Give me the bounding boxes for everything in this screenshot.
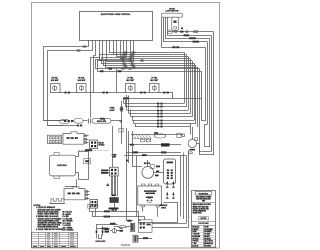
svg-text:CIRCUIT ONLY. IT IS POSSIBLE: CIRCUIT ONLY. IT IS POSSIBLE	[38, 218, 63, 220]
notes text	[34, 205, 64, 231]
svg-text:R RED: R RED	[192, 231, 196, 233]
svg-text:NOTICE: NOTICE	[201, 218, 207, 220]
broil row wires	[44, 119, 83, 126]
oven lamp E3	[126, 77, 136, 93]
bottom rows	[89, 210, 144, 229]
TML 50 junction	[109, 203, 119, 213]
terminal block TB1	[164, 159, 176, 184]
wire bundle to terminal	[106, 176, 118, 196]
svg-text:Y = YELLOW: Y = YELLOW	[63, 218, 73, 220]
dashed link	[78, 149, 109, 151]
svg-text:GN GREEN: GN GREEN	[204, 231, 211, 233]
svg-text:BROIL ELE: BROIL ELE	[97, 121, 107, 123]
svg-text:UNIT: UNIT	[202, 200, 205, 202]
svg-text:W WHITE: W WHITE	[192, 229, 198, 231]
svg-text:BAKE ELE: BAKE ELE	[57, 164, 67, 167]
svg-text:NO CONN: NO CONN	[204, 245, 210, 247]
latch switch S1 chain	[168, 27, 214, 33]
svg-text:DOOR LOCK: DOOR LOCK	[96, 241, 107, 243]
mid rows 150-155	[124, 151, 186, 156]
svg-text:GN = GREEN: GN = GREEN	[63, 227, 73, 229]
svg-text:R = RED: R = RED	[63, 216, 70, 218]
fan motor M2	[142, 160, 164, 178]
svg-text:UNITS: UNITS	[161, 207, 166, 209]
power distribution box	[139, 220, 189, 233]
warmer wire row	[128, 143, 181, 146]
bundle rows to right bus	[100, 43, 200, 72]
terminal connector TML1	[110, 195, 119, 203]
door switch wiring	[197, 125, 214, 155]
wire code list	[63, 211, 74, 232]
svg-text:BLK WHT: BLK WHT	[150, 80, 159, 82]
relay K3	[90, 200, 98, 209]
latch relay K1	[90, 140, 106, 149]
left drop wires to fan	[126, 128, 142, 222]
dual pin header	[88, 204, 97, 217]
hot surface relay K2	[101, 126, 118, 176]
svg-text:DISCONNECT POWER: DISCONNECT POWER	[196, 197, 212, 199]
svg-text:V = VIOLET: V = VIOLET	[63, 225, 71, 227]
svg-text:WH WHT: WH WHT	[204, 236, 210, 238]
svg-text:WITH COLOR CODE DESIG-: WITH COLOR CODE DESIG-	[38, 211, 60, 213]
latch plug J1	[48, 135, 62, 143]
svg-text:BLK WHT: BLK WHT	[51, 80, 60, 82]
door lock lamp	[105, 228, 124, 234]
surface unit box	[138, 203, 178, 223]
bottom plug J3	[49, 199, 65, 204]
electronic oven control EOC	[80, 12, 153, 41]
oven lamp E2	[77, 78, 87, 93]
svg-text:LATCH MOTOR: LATCH MOTOR	[165, 9, 179, 12]
harness rows to components	[123, 95, 206, 139]
svg-text:P PINK: P PINK	[204, 227, 208, 229]
broil element	[74, 69, 122, 124]
surface units arrows	[160, 181, 175, 210]
svg-text:BG BEIGE: BG BEIGE	[204, 238, 211, 240]
oven vent label	[112, 155, 117, 159]
bake element	[50, 153, 76, 179]
svg-text:BL BLUE: BL BLUE	[192, 245, 198, 247]
right wire bus verticals	[122, 32, 214, 155]
lamp row connectors	[65, 92, 169, 94]
oven lamp E4	[150, 77, 160, 93]
svg-text:BR = BROWN: BR = BROWN	[63, 221, 74, 223]
wire L1 run	[44, 43, 89, 120]
svg-text:BR BROWN: BR BROWN	[192, 236, 200, 238]
EOC pin header P1	[89, 41, 134, 44]
warmer limit switch	[177, 133, 185, 137]
wire N run	[48, 43, 93, 125]
latch wiring rows	[162, 17, 212, 48]
part number	[121, 244, 131, 247]
svg-text:BLK WHT: BLK WHT	[78, 80, 87, 82]
oven door switch feed	[100, 118, 123, 144]
warmer element assembly	[131, 132, 183, 142]
svg-text:BEFORE SERVICING: BEFORE SERVICING	[196, 199, 211, 201]
power supply cord	[114, 226, 130, 229]
svg-text:VICING PROD: VICING PROD	[193, 213, 202, 215]
border frame	[32, 3, 220, 249]
door latch motor M1	[162, 8, 183, 30]
latch socket	[63, 132, 89, 144]
svg-text:COLOR CODE: COLOR CODE	[198, 223, 208, 225]
oven light feed	[109, 101, 123, 123]
svg-text:BLK WHT: BLK WHT	[126, 80, 135, 82]
svg-text:W = WHITE: W = WHITE	[63, 214, 71, 216]
svg-text:7424521: 7424521	[121, 244, 131, 247]
svg-text:ELECTRONIC OVEN CONTROL: ELECTRONIC OVEN CONTROL	[101, 14, 131, 16]
door lock solenoid	[96, 226, 107, 243]
door switch S2	[188, 138, 198, 154]
oven lamp row wire	[60, 92, 173, 99]
svg-text:Y YELLOW: Y YELLOW	[192, 234, 200, 236]
svg-text:LBL LT BLUE: LBL LT BLUE	[204, 241, 213, 243]
sensor feed wires	[137, 155, 158, 217]
svg-text:TML 1: TML 1	[112, 195, 117, 197]
svg-text:V VIOLET: V VIOLET	[192, 241, 198, 243]
svg-text:NOTES:: NOTES:	[34, 205, 42, 207]
oven lamp E1	[51, 78, 61, 93]
bake feed wire	[65, 179, 77, 188]
bundle staircase left	[91, 43, 123, 117]
connector block J2	[64, 187, 90, 200]
svg-text:WARNING: WARNING	[199, 192, 209, 195]
bake bracket	[76, 152, 91, 180]
warning panel	[192, 191, 216, 248]
ground strap	[133, 235, 152, 242]
terminal block PT1	[130, 223, 134, 231]
oven sensor RTD	[138, 184, 162, 207]
right drop wires	[181, 150, 189, 227]
schedule table	[32, 233, 78, 248]
